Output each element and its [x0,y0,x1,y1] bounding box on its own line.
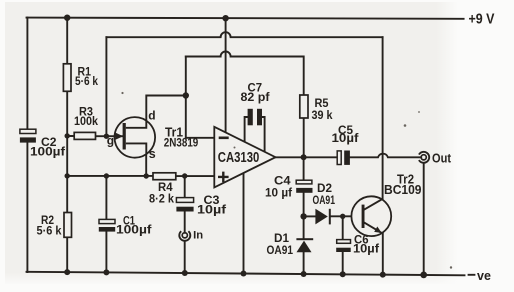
node: +9V / op-amp supply junction [222,15,228,21]
node: -ve rail / C6 junction [340,271,346,277]
svg-text:C4: C4 [274,176,291,188]
node: C1 / mid-rail junction [104,173,109,178]
capacitor C4 [296,180,312,193]
wire: +9V top rail [27,18,464,19]
svg-text:ve: ve [477,269,491,283]
net label -ve [468,269,491,283]
svg-text:39 k: 39 k [312,110,334,122]
svg-text:100µf: 100µf [30,146,65,158]
svg-text:10µf: 10µf [197,204,226,216]
svg-text:CA3130: CA3130 [218,150,259,166]
svg-text:s: s [149,147,156,161]
node: -ve rail / op-amp V- junction [241,271,247,277]
resistor R3 [74,132,95,139]
wire: +9V drop to op-amp power pin [225,18,227,132]
wire: feedback vertical from y37 line down to gate node [105,37,107,136]
svg-text:D2: D2 [317,183,332,195]
capacitor C3 [176,198,193,212]
svg-text:2N3819: 2N3819 [164,137,199,149]
node: R2 / mid-rail junction [65,173,70,178]
node: -ve rail / Out jack junction [420,272,427,279]
node: D2 / C6 / Tr2 base junction [340,214,345,219]
svg-text:100µf: 100µf [116,225,152,237]
svg-text:R4: R4 [158,182,173,194]
wire: D2 cathode to Tr2 base [331,215,362,217]
wire: C6 branch [342,216,344,274]
svg-text:OA91: OA91 [267,245,294,257]
wire: Tr1 source lead [145,154,147,176]
jack: Out socket [419,152,429,163]
wire: op-amp V- pin to rail [243,173,245,274]
capacitor C2 [20,129,36,142]
node: op-amp output / R5 / C4 junction [301,154,307,160]
diode D2 OA91 [315,209,330,225]
svg-text:R5: R5 [315,98,330,110]
wire: C1 branch [105,176,107,272]
capacitor C1 [99,219,115,231]
node: R1/R3 gate bias junction [65,133,70,138]
resistor R2 [64,213,72,238]
wire: Out jack ground lead [423,163,425,275]
transistor Tr1 2N3819 JFET [115,117,156,158]
node: C4 / D1 / D2 junction [300,213,306,219]
node: -ve rail / R2 junction [64,269,70,275]
node: -ve rail / Tr2 emitter junction [380,272,386,278]
wire: minus node vertical [185,57,187,138]
svg-text:g: g [107,134,114,148]
diode D1 OA91 [296,238,313,252]
resistor R4 [153,173,176,180]
capacitor C7 [248,109,262,126]
pin: minus symbol [219,137,229,140]
wire: mid rail (non-inverting input net) [67,175,214,177]
node: C3 / non-inverting input junction [182,173,187,178]
svg-text:Out: Out [432,151,452,166]
svg-text:100k: 100k [74,116,99,128]
svg-text:d: d [148,109,155,123]
wire: D2 anode lead [304,215,316,217]
resistor R1 [63,64,71,92]
svg-text:10µf: 10µf [332,133,359,145]
op-amp U1 CA3130 [214,127,275,188]
svg-text:8·2 k: 8·2 k [149,194,175,206]
wire: R3 leads and gate wire [67,135,115,137]
wire: Tr2 emitter to rail [382,234,384,275]
svg-text:In: In [193,230,203,242]
pin: plus symbol [218,172,229,183]
capacitor C6 [336,240,351,252]
wire: Tr2 collector vertical [382,37,384,199]
wire: R5 bottom lead [303,118,305,157]
speck marks (scan noise) [121,92,452,269]
wire: left branch vertical (C2 branch) [26,18,28,272]
svg-text:5·6 k: 5·6 k [37,226,63,238]
node: drain / inverting input junction [183,92,189,98]
resistor R5 [300,95,308,118]
capacitor C5 [337,151,350,165]
wire: C3 / In branch [184,176,186,273]
wire: output line from op-amp to Out jack [276,154,422,158]
wire: C4 branch [303,157,305,216]
wire: long feedback line y=37 from gate node to Tr2 collector [106,32,382,37]
wire: R1/R2 vertical branch [66,18,68,272]
node: +9V / R1 junction [64,15,70,21]
svg-text:10 µf: 10 µf [265,188,292,200]
svg-text:BC109: BC109 [384,183,422,197]
node: -ve rail / C1 junction [103,269,109,275]
wire: Tr1 drain wire to minus node [146,96,186,121]
svg-text:82 pf: 82 pf [241,92,270,104]
jack: In socket [179,231,190,241]
svg-text:+9 V: +9 V [469,12,495,28]
wire: op-amp inverting input stub [186,137,215,139]
svg-text:5·6 k: 5·6 k [75,76,99,88]
svg-text:OA91: OA91 [313,195,336,207]
svg-text:10µf: 10µf [353,243,379,255]
capacitor C7 leads [245,117,265,152]
node: -ve rail / D1 junction [301,271,307,277]
wire: bottom -ve rail [27,272,465,276]
node: Tr1 source / mid-rail junction [144,173,149,178]
node: gate / feedback junction [104,134,109,139]
svg-text:D1: D1 [274,233,290,245]
wire: D1 branch to rail [303,216,305,274]
node: -ve rail / In jack junction [182,270,188,276]
wire: minus-node link y=56.5 to R5 top [186,52,304,96]
transistor Tr2 BC109 [351,196,391,236]
